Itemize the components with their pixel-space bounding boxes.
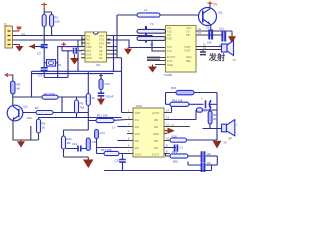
pin numbers: [198, 27, 206, 50]
svg-text:R11 10K: R11 10K: [97, 114, 108, 118]
power +9V Q1: [208, 1, 219, 6]
power +9V P1: [42, 3, 48, 9]
ground arrow J1: [16, 45, 24, 52]
svg-text:10K: 10K: [27, 116, 32, 120]
resistor R17 vertical: [208, 104, 218, 128]
svg-text:T1: T1: [233, 58, 237, 62]
svg-text:OSC: OSC: [186, 55, 192, 59]
wire rail y97: [13, 96, 87, 98]
wire bus B: [13, 40, 166, 48]
power red V left: [5, 73, 13, 81]
svg-text:220uF: 220uF: [106, 95, 114, 99]
svg-text:OT1: OT1: [99, 34, 105, 38]
svg-text:R7: R7: [35, 106, 39, 110]
capacitor C17 small: [164, 108, 217, 120]
capacitor C6: [206, 26, 212, 45]
wire IC U1 right pin stubs: [107, 36, 122, 58]
ground arrow under C4: [70, 54, 79, 65]
wire pin5 stub: [118, 140, 128, 142]
svg-text:X2: X2: [150, 43, 154, 47]
svg-text:PB: PB: [186, 33, 190, 37]
wire bottom long: [104, 165, 212, 171]
svg-text:GND: GND: [86, 56, 92, 60]
svg-text:AOUT: AOUT: [152, 111, 160, 115]
capacitor C19: [202, 151, 218, 162]
ground arrow C10: [97, 99, 105, 106]
wire transducer pair: [196, 47, 222, 50]
svg-text:IC1: IC1: [96, 63, 101, 67]
svg-text:OS1: OS1: [86, 49, 92, 53]
svg-text:2IN: 2IN: [135, 118, 139, 122]
svg-text:X1: X1: [58, 63, 62, 67]
svg-text:R15: R15: [171, 86, 177, 90]
wire riser pin14: [166, 93, 177, 113]
svg-text:VCC: VCC: [135, 132, 141, 136]
resistor R5: [11, 81, 21, 106]
capacitor C20: [188, 161, 217, 172]
inductor L1: [117, 8, 199, 17]
svg-text:10u: 10u: [207, 152, 212, 156]
wire U2 left lower stubs: [155, 58, 166, 65]
power plus mark: [62, 42, 67, 46]
svg-text:X2O: X2O: [167, 37, 172, 41]
ground arrow left osc: [29, 44, 35, 49]
capacitor C5 plates: [147, 58, 160, 61]
svg-text:3IN: 3IN: [154, 139, 158, 143]
resistor R2: [50, 15, 60, 36]
svg-text:1Y: 1Y: [112, 126, 116, 130]
svg-text:GND: GND: [167, 63, 173, 67]
resistor R9 vertical: [75, 97, 85, 118]
power plus C10: [99, 74, 103, 78]
svg-text:104: 104: [207, 41, 212, 45]
wire riser x78: [77, 40, 79, 51]
svg-text:OS2: OS2: [86, 53, 92, 57]
IC U1: [85, 32, 107, 67]
svg-text:TX2: TX2: [167, 49, 172, 53]
resistor R14: [97, 148, 128, 156]
wire mid bus pair: [32, 71, 122, 73]
resistor R7: [27, 106, 53, 120]
svg-text:C14: C14: [100, 131, 106, 135]
ground arrow big: [83, 157, 94, 168]
svg-text:X2I: X2I: [167, 33, 171, 37]
svg-text:X1O: X1O: [167, 30, 172, 34]
svg-text:TD: TD: [186, 30, 190, 34]
svg-text:VDD: VDD: [86, 45, 92, 49]
resistor R3: [137, 29, 166, 33]
connector J1: [4, 23, 13, 49]
capacitor C18 vertical plate: [164, 145, 183, 152]
svg-text:75K: 75K: [80, 106, 85, 110]
wire cap column: [216, 156, 218, 165]
svg-text:IN3: IN3: [86, 41, 91, 45]
svg-text:C6: C6: [206, 26, 210, 30]
capacitor C14 vertical: [95, 129, 105, 154]
svg-text:4K: 4K: [17, 87, 21, 91]
wire osc bottom: [44, 51, 68, 78]
ground arrow top right: [228, 31, 236, 43]
svg-text:GND: GND: [153, 132, 159, 136]
svg-text:C10: C10: [105, 82, 111, 86]
ground arrow right: [213, 141, 228, 149]
svg-text:R19: R19: [172, 150, 178, 154]
wire riser x121.5 to U3: [122, 58, 128, 113]
resistor R11: [88, 114, 127, 123]
wire pin3 stub: [118, 126, 128, 128]
ground arrow U2: [148, 65, 157, 73]
ground arrow Q2: [17, 140, 25, 148]
svg-text:VT: VT: [171, 123, 175, 127]
svg-text:IN2: IN2: [86, 38, 91, 42]
transistor Q1: [199, 8, 223, 26]
wire osc right branch: [58, 47, 81, 63]
power flag pin1: [17, 27, 22, 31]
resistor R4: [137, 37, 166, 47]
port arrow right: [164, 128, 175, 134]
svg-text:2IN: 2IN: [135, 139, 139, 143]
svg-text:4IN: 4IN: [154, 125, 158, 129]
svg-text:U3A: U3A: [136, 104, 142, 108]
svg-text:D1: D1: [99, 56, 103, 60]
svg-text:4IN: 4IN: [154, 118, 158, 122]
svg-text:C2: C2: [37, 52, 41, 56]
svg-text:X1I: X1I: [167, 26, 171, 30]
resistor R8 vertical: [37, 118, 46, 141]
wire emitter loop: [13, 120, 39, 140]
svg-text:2K: 2K: [92, 96, 96, 100]
wire: [44, 8, 51, 15]
svg-text:3IN: 3IN: [154, 146, 158, 150]
wire U3 left stubs: [127, 113, 133, 154]
svg-text:Q1: Q1: [219, 11, 223, 15]
svg-text:OT3: OT3: [99, 41, 105, 45]
svg-text:D0: D0: [99, 53, 103, 57]
resistor R18: [170, 135, 217, 143]
capacitor C2: [37, 40, 48, 63]
wire right riser: [216, 93, 218, 141]
svg-text:1INT: 1INT: [135, 111, 141, 115]
wire R6 drop: [61, 97, 63, 113]
wire collector Q1: [209, 4, 211, 9]
svg-text:1M: 1M: [67, 141, 72, 145]
wire pin6 run: [97, 147, 128, 149]
svg-text:TX1: TX1: [167, 45, 172, 49]
svg-text:T1OT: T1OT: [184, 45, 191, 49]
svg-text:发射: 发射: [208, 52, 226, 62]
svg-text:2IN: 2IN: [135, 146, 139, 150]
capacitor C3: [38, 63, 48, 78]
wire U3 right stubs: [164, 113, 190, 154]
capacitor C4: [62, 47, 81, 54]
svg-text:Y1: Y1: [150, 22, 154, 26]
svg-text:1OUT: 1OUT: [135, 153, 143, 157]
wire IC U1 left pin stubs: [81, 36, 85, 58]
capacitor C13: [66, 142, 88, 152]
svg-text:T2OT: T2OT: [184, 49, 191, 53]
svg-text:TE: TE: [99, 45, 103, 49]
svg-text:IN1: IN1: [86, 34, 91, 38]
svg-text:10K: 10K: [55, 20, 60, 24]
wire mid bus drop left: [31, 71, 33, 97]
svg-text:2IN: 2IN: [135, 125, 139, 129]
svg-text:R IN: R IN: [167, 59, 172, 63]
svg-text:VCC: VCC: [186, 26, 192, 30]
svg-text:C8: C8: [204, 109, 208, 113]
resistor R6: [42, 92, 58, 99]
wire bus A: [13, 36, 166, 52]
wire speaker feed: [203, 128, 222, 130]
wire base row: [23, 112, 88, 114]
resistor R15: [171, 86, 217, 95]
svg-text:SEL: SEL: [186, 59, 191, 63]
svg-text:Q2: Q2: [24, 105, 28, 109]
wire riser x82: [81, 36, 83, 48]
svg-text:1K: 1K: [42, 126, 46, 130]
capacitor C7: [219, 27, 225, 47]
svg-text:1OUT: 1OUT: [152, 153, 160, 157]
svg-text:L1: L1: [144, 8, 148, 12]
wire riser x113.5: [113, 36, 115, 73]
svg-text:C1: C1: [180, 146, 184, 150]
svg-text:10u: 10u: [207, 161, 212, 165]
wire out row: [164, 154, 170, 157]
resistor R13 vertical: [86, 138, 97, 151]
resistor R16: [166, 99, 204, 107]
wire riser x78 mid: [77, 52, 79, 71]
svg-text:R OUT: R OUT: [167, 55, 175, 59]
wire emitter Q1: [209, 24, 212, 31]
wire U2 right row1: [196, 31, 232, 35]
capacitor C16 polarized: [201, 97, 217, 109]
crystal X1: [44, 60, 62, 67]
wire pins J1: [13, 31, 20, 45]
svg-text:CE: CE: [99, 49, 103, 53]
wire riser x117: [116, 15, 118, 58]
capacitor C15 below U3: [115, 154, 126, 171]
pin numbers U3: [128, 109, 169, 154]
capacitor C10 electrolytic: [98, 74, 114, 99]
svg-text:TX20B: TX20B: [164, 73, 173, 77]
svg-text:SP: SP: [228, 137, 232, 141]
speaker T1 transducer: [222, 41, 237, 63]
resistor R1: [42, 15, 46, 41]
wire loop left: [64, 130, 89, 157]
wire bus y117: [39, 117, 122, 119]
svg-text:9V: 9V: [224, 141, 228, 145]
svg-text:OT2: OT2: [99, 38, 105, 42]
svg-text:C11: C11: [219, 27, 224, 31]
svg-text:4K: 4K: [213, 117, 217, 121]
crystal Y1: [146, 22, 154, 43]
transistor Q2: [7, 105, 28, 121]
IC U2: [164, 26, 197, 78]
svg-text:C13: C13: [72, 142, 78, 146]
wire osc top: [35, 46, 44, 48]
resistor R19: [170, 150, 201, 164]
ground arrow mid: [124, 48, 132, 55]
resistor R10 vertical: [86, 71, 95, 130]
speaker SP1: [222, 120, 238, 141]
IC U3: [133, 104, 164, 157]
svg-text:5K6: 5K6: [173, 160, 178, 164]
capacitor C8: [200, 50, 206, 55]
resistor R12: [62, 136, 73, 149]
svg-text:C15: C15: [115, 159, 121, 163]
